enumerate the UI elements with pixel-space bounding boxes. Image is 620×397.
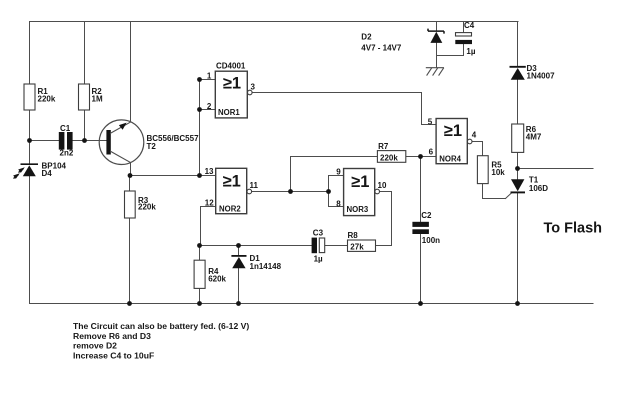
wire D1 top stub bbox=[238, 246, 240, 256]
wire NOR2 pin12 bbox=[201, 207, 216, 246]
capacitor C4 bbox=[455, 21, 476, 56]
svg-text:10: 10 bbox=[378, 181, 387, 190]
svg-text:4V7 - 14V7: 4V7 - 14V7 bbox=[361, 43, 402, 52]
svg-text:CD4001: CD4001 bbox=[216, 62, 246, 71]
svg-text:NOR3: NOR3 bbox=[347, 205, 369, 214]
svg-text:NOR2: NOR2 bbox=[219, 204, 241, 213]
NOR gate NOR2 bbox=[205, 167, 259, 214]
wire D1 bottom stub bbox=[238, 269, 240, 304]
svg-text:2: 2 bbox=[207, 102, 212, 111]
resistor R1 bbox=[24, 84, 56, 110]
svg-text:220k: 220k bbox=[380, 153, 398, 162]
svg-text:C3: C3 bbox=[313, 229, 324, 238]
svg-text:27k: 27k bbox=[350, 243, 364, 252]
wire node A to R7 bbox=[291, 156, 378, 158]
wire node A up bbox=[290, 157, 292, 192]
wire NOR4 pin4 output bbox=[472, 142, 483, 156]
wire NOR1 input column bbox=[199, 80, 201, 176]
resistor R3 bbox=[125, 191, 157, 218]
svg-text:1N4007: 1N4007 bbox=[527, 72, 556, 81]
wire D2 bottom bbox=[436, 43, 438, 68]
node dots bbox=[27, 77, 520, 306]
node C1/R1 bbox=[27, 138, 32, 143]
wire D2 to C4 link bbox=[437, 55, 464, 57]
svg-text:4M7: 4M7 bbox=[526, 133, 542, 142]
zener diode D2 bbox=[361, 29, 444, 53]
node B R4/D1 bbox=[197, 243, 202, 248]
node R3 bottom rail bbox=[127, 301, 132, 306]
node R2 bottom bbox=[82, 138, 87, 143]
resistor R2 bbox=[79, 84, 103, 110]
ground bbox=[426, 68, 444, 76]
svg-text:≥1: ≥1 bbox=[223, 75, 241, 93]
wire R6 bottom bbox=[517, 152, 519, 168]
svg-text:remove D2: remove D2 bbox=[73, 341, 117, 351]
wire T1 gate slant bbox=[506, 193, 512, 199]
svg-text:R7: R7 bbox=[378, 142, 389, 151]
svg-text:6: 6 bbox=[429, 148, 434, 157]
node T1 bottom rail bbox=[515, 301, 520, 306]
resistor R7 bbox=[377, 142, 405, 162]
wire bottom rail bbox=[30, 303, 594, 305]
wire NOR3 input bracket bbox=[328, 176, 330, 207]
wire NOR3 pin9 bbox=[329, 175, 344, 177]
wire node A to NOR3 inputs bbox=[291, 191, 329, 193]
svg-text:220k: 220k bbox=[138, 203, 156, 212]
svg-text:D4: D4 bbox=[42, 169, 53, 178]
node R4 bottom rail bbox=[197, 301, 202, 306]
wire node C1 left bbox=[30, 140, 60, 142]
svg-text:R8: R8 bbox=[348, 231, 359, 240]
svg-text:≥1: ≥1 bbox=[351, 173, 369, 191]
wire R3 top bbox=[129, 176, 131, 192]
svg-text:3: 3 bbox=[251, 82, 256, 91]
svg-text:12: 12 bbox=[205, 198, 214, 207]
wire down to NOR4 pin5 bbox=[421, 93, 423, 125]
wire left rail middle bbox=[29, 110, 31, 164]
svg-text:C2: C2 bbox=[421, 211, 432, 220]
svg-text:Remove R6 and D3: Remove R6 and D3 bbox=[73, 331, 151, 341]
wire NOR1 pin1 bbox=[200, 79, 216, 81]
resistor R6 bbox=[512, 124, 542, 152]
wire left rail upper bbox=[29, 22, 31, 85]
wire T1 cathode down bbox=[517, 193, 519, 303]
op-amp U1 : NOR gate NOR1 bbox=[207, 62, 256, 118]
wire T2 collector down bbox=[130, 163, 132, 176]
NOR gate NOR3 bbox=[336, 168, 387, 216]
node pin13 junction bbox=[197, 173, 202, 178]
wire R8 left to C3 bbox=[325, 245, 348, 247]
svg-text:1M: 1M bbox=[92, 95, 103, 104]
svg-text:C4: C4 bbox=[464, 21, 475, 30]
wire R2 column bottom bbox=[84, 110, 86, 141]
NOR gate NOR4 bbox=[428, 117, 477, 163]
wire R3 bottom bbox=[129, 218, 131, 304]
transistor T2 bbox=[99, 120, 199, 165]
svg-text:≥1: ≥1 bbox=[223, 173, 241, 191]
wire R8 right bbox=[376, 245, 392, 247]
capacitor C3 bbox=[312, 229, 325, 264]
svg-text:NOR1: NOR1 bbox=[218, 108, 240, 117]
wire D3 to R6 bbox=[517, 80, 519, 124]
wire left rail lower bbox=[29, 176, 31, 303]
photodiode D4 bbox=[13, 162, 66, 179]
wire NOR1 pin2 bbox=[200, 109, 216, 111]
node NOR1 pin1 bbox=[197, 77, 202, 82]
capacitor C1 bbox=[59, 124, 74, 158]
note text bbox=[73, 321, 249, 361]
wire C1 to base bbox=[73, 140, 106, 142]
wire anode node to flash bbox=[518, 168, 594, 170]
svg-text:4: 4 bbox=[472, 130, 477, 139]
svg-text:C1: C1 bbox=[60, 124, 71, 133]
resistor R8 bbox=[348, 231, 376, 252]
diode D1 bbox=[231, 254, 281, 271]
wire NOR3 pin10 output bbox=[380, 191, 392, 193]
svg-text:D2: D2 bbox=[361, 33, 372, 42]
svg-text:1n14148: 1n14148 bbox=[250, 262, 282, 271]
node NOR3 inputs bbox=[326, 189, 331, 194]
wire R4 top stub bbox=[199, 246, 201, 261]
wire R2 column top bbox=[84, 22, 86, 85]
svg-text:2n2: 2n2 bbox=[60, 149, 74, 158]
wire T1 anode stub bbox=[517, 169, 519, 180]
svg-text:9: 9 bbox=[336, 168, 341, 177]
wire D2 top stub bbox=[436, 22, 438, 31]
resistor R5 bbox=[477, 156, 505, 184]
wire NOR3 pin8 bbox=[329, 206, 344, 208]
svg-text:8: 8 bbox=[336, 200, 341, 209]
wire top rail bbox=[30, 21, 519, 23]
diode D3 bbox=[510, 64, 556, 81]
svg-text:13: 13 bbox=[205, 167, 214, 176]
svg-text:Increase C4 to 10uF: Increase C4 to 10uF bbox=[73, 351, 154, 361]
wire NOR1 pin3 output bbox=[252, 92, 422, 94]
svg-text:10k: 10k bbox=[491, 168, 505, 177]
svg-text:1µ: 1µ bbox=[466, 47, 475, 56]
svg-text:106D: 106D bbox=[529, 184, 548, 193]
wire NOR4 pin5 bbox=[422, 124, 437, 126]
wire T2 emitter column bbox=[130, 22, 132, 122]
svg-text:1: 1 bbox=[207, 71, 212, 80]
wire node B to R4 bbox=[200, 245, 239, 247]
wire C2 bottom bbox=[420, 234, 422, 304]
node collector junction bbox=[128, 173, 133, 178]
wire D3 top bbox=[517, 22, 519, 67]
capacitor C2 bbox=[412, 211, 440, 245]
svg-text:NOR4: NOR4 bbox=[439, 155, 461, 164]
node D1 bottom rail bbox=[236, 301, 241, 306]
svg-text:1µ: 1µ bbox=[314, 255, 323, 264]
wire R7 to node6 bbox=[406, 156, 436, 158]
wire C4 top bbox=[463, 22, 465, 33]
svg-text:The Circuit can also be batter: The Circuit can also be battery fed. (6-… bbox=[73, 321, 249, 331]
wire C2 top bbox=[420, 157, 422, 222]
wire C3 left to node bbox=[239, 245, 312, 247]
wire NOR2 pin11 output bbox=[252, 191, 291, 193]
node B D1 top bbox=[236, 243, 241, 248]
svg-text:5: 5 bbox=[428, 117, 433, 126]
thyristor T1 bbox=[511, 175, 549, 192]
svg-text:100n: 100n bbox=[422, 236, 440, 245]
wire R4 bottom stub bbox=[199, 288, 201, 303]
svg-text:To Flash: To Flash bbox=[544, 221, 603, 237]
node T1 anode bbox=[515, 166, 520, 171]
node NOR1 pin2 bbox=[197, 107, 202, 112]
node A bbox=[288, 189, 293, 194]
wire R5 bottom to gate bbox=[483, 184, 506, 199]
svg-text:11: 11 bbox=[250, 181, 259, 190]
svg-text:620k: 620k bbox=[208, 275, 226, 284]
node C2 bottom rail bbox=[418, 301, 423, 306]
resistor R4 bbox=[194, 260, 226, 288]
wire pin10 down to R8 bbox=[391, 192, 393, 246]
node 6 bbox=[418, 154, 423, 159]
wire C4 bottom bbox=[463, 44, 465, 55]
svg-text:≥1: ≥1 bbox=[444, 122, 462, 140]
wire collector to NOR2 pin13 bbox=[130, 175, 216, 177]
svg-text:220k: 220k bbox=[38, 95, 56, 104]
svg-text:T2: T2 bbox=[147, 142, 157, 151]
